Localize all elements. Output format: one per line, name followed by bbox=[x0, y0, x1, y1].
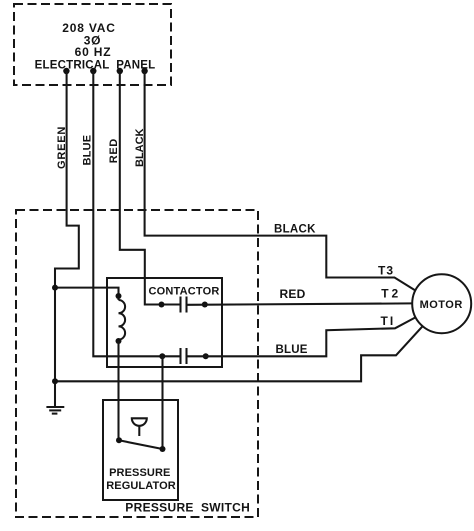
svg-text:PRESSURE SWITCH: PRESSURE SWITCH bbox=[125, 500, 250, 514]
terminal dot green phase bbox=[63, 68, 69, 74]
junction dot regulator right bbox=[160, 446, 166, 452]
wire BLACK from panel to motor T3 bbox=[145, 71, 415, 290]
terminal dot black phase bbox=[141, 68, 147, 74]
svg-text:RED: RED bbox=[108, 138, 120, 163]
label 60 HZ bbox=[75, 45, 112, 59]
label BLUE (vertical) bbox=[82, 135, 94, 166]
label BLACK (vertical) bbox=[134, 128, 146, 167]
junction dot coil bottom bbox=[116, 338, 122, 344]
label PRESSURE REGULATOR bbox=[106, 467, 176, 492]
label RED (vertical) bbox=[108, 138, 120, 163]
label GREEN (vertical) bbox=[56, 126, 68, 169]
svg-text:BLACK: BLACK bbox=[274, 224, 316, 236]
motor M1 bbox=[412, 274, 471, 333]
svg-text:BLUE: BLUE bbox=[276, 344, 308, 356]
svg-text:RED: RED bbox=[280, 287, 306, 301]
ground symbol bbox=[46, 407, 64, 414]
terminal dot red phase bbox=[117, 68, 123, 74]
wire BLUE output to motor T1 bbox=[188, 318, 416, 357]
label T3 bbox=[378, 264, 394, 278]
pressure regulator box bbox=[103, 400, 178, 500]
svg-text:GREEN: GREEN bbox=[56, 126, 68, 169]
svg-text:MOTOR: MOTOR bbox=[420, 299, 463, 311]
label RED (horizontal) bbox=[280, 287, 306, 301]
wire coil bottom to pressure regulator left contact bbox=[117, 341, 119, 440]
svg-text:TI: TI bbox=[381, 314, 396, 328]
wire GREEN from panel to ground bbox=[55, 71, 79, 406]
svg-text:BLUE: BLUE bbox=[82, 135, 94, 166]
label T2 bbox=[381, 287, 401, 301]
junction dot lower contact right bbox=[203, 353, 209, 359]
wire from green junction to coil top bbox=[55, 288, 119, 296]
wire BLUE from panel to contactor lower contact bbox=[93, 71, 179, 356]
junction dot upper contact right bbox=[202, 302, 208, 308]
junction dot lower contact left bbox=[159, 353, 165, 359]
pressure switch enclosure (dashed box) bbox=[16, 210, 258, 517]
wire ground bus to motor frame bbox=[55, 326, 423, 381]
label BLUE (horizontal) bbox=[276, 344, 308, 356]
junction dot ground branch bbox=[52, 378, 58, 384]
pressure regulator diaphragm symbol bbox=[132, 418, 147, 436]
contactor box bbox=[107, 278, 222, 367]
label BLACK (horizontal, at wire to T3) bbox=[274, 224, 316, 236]
label ELECTRICAL PANEL bbox=[35, 60, 156, 72]
contactor coil bbox=[119, 296, 126, 341]
svg-text:BLACK: BLACK bbox=[134, 128, 146, 167]
label 208 VAC bbox=[62, 21, 115, 35]
wire RED from panel to contactor upper contact bbox=[120, 71, 180, 305]
label CONTACTOR bbox=[149, 286, 220, 298]
junction dot regulator left bbox=[116, 437, 122, 443]
lower contact plates bbox=[181, 348, 187, 364]
svg-text:PRESSURE: PRESSURE bbox=[109, 467, 170, 479]
svg-text:REGULATOR: REGULATOR bbox=[106, 480, 176, 492]
wire lower contact to pressure regulator right contact bbox=[161, 356, 163, 449]
junction dot coil top bbox=[116, 293, 122, 299]
electrical panel enclosure (dashed box) bbox=[14, 4, 171, 85]
terminal dot blue phase bbox=[90, 68, 96, 74]
svg-text:CONTACTOR: CONTACTOR bbox=[149, 286, 220, 298]
upper contact plates bbox=[181, 297, 187, 313]
junction dot upper contact left bbox=[159, 302, 165, 308]
svg-text:T2: T2 bbox=[381, 287, 401, 301]
pressure switch blade bbox=[119, 440, 163, 449]
label PRESSURE SWITCH bbox=[125, 500, 250, 514]
wire RED output to motor T2 bbox=[188, 303, 413, 304]
label 3-phase bbox=[84, 34, 102, 48]
svg-text:60 HZ: 60 HZ bbox=[75, 45, 112, 59]
label T1 bbox=[381, 314, 396, 328]
svg-text:T3: T3 bbox=[378, 264, 394, 278]
junction dot green branch bbox=[52, 285, 58, 291]
